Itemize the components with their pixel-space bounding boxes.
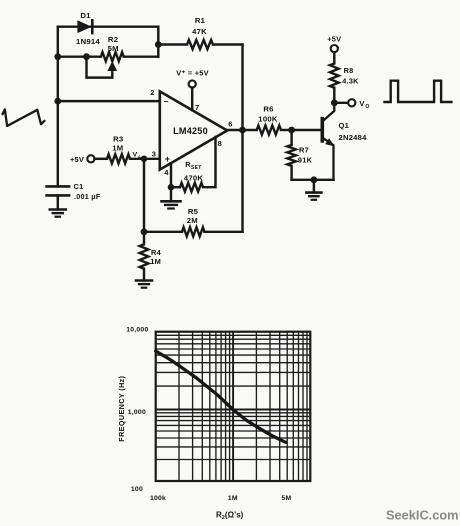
svg-text:.001 μF: .001 μF <box>74 192 101 201</box>
wire D1 top row <box>58 25 159 27</box>
svg-text:2N2484: 2N2484 <box>339 133 368 142</box>
svg-text:1M: 1M <box>150 257 161 266</box>
svg-text:R2: R2 <box>108 35 118 44</box>
svg-text:1M: 1M <box>112 143 123 152</box>
graph y tick label 10,000 <box>126 326 148 333</box>
power V+ = +5V pin 7 <box>176 68 209 110</box>
wire base <box>292 129 323 131</box>
resistor R3 1M <box>95 134 145 163</box>
svg-text:R6: R6 <box>263 105 273 114</box>
graph x tick label 100k <box>150 495 166 502</box>
node junction pin4/RSET <box>168 184 175 191</box>
svg-text:Q1: Q1 <box>339 121 350 130</box>
svg-text:D1: D1 <box>80 11 91 20</box>
graph grid major lines 1M and 1000 <box>156 332 311 481</box>
wire emitter bottom row <box>292 179 334 181</box>
node junction rail/pin2 row <box>54 98 61 105</box>
node junction base <box>288 127 295 134</box>
node junction pin3 <box>141 156 148 163</box>
svg-text:R8: R8 <box>344 66 354 75</box>
sawtooth waveform symbol <box>3 109 45 126</box>
graph curve frequency vs R2 <box>156 351 286 442</box>
wire op-amp output pin 6 <box>227 129 242 131</box>
svg-text:R4: R4 <box>151 248 162 257</box>
svg-text:100: 100 <box>131 486 143 493</box>
resistor R7 91K <box>287 130 312 180</box>
node V_A label <box>133 151 142 159</box>
ground under C1 <box>50 210 66 217</box>
node junction Vo <box>331 99 338 106</box>
svg-text:R5: R5 <box>188 207 199 216</box>
svg-text:+5V: +5V <box>70 155 84 164</box>
graph x tick label 5M <box>282 495 292 502</box>
resistor R4 1M <box>140 232 162 281</box>
power +5V left terminal <box>70 155 95 164</box>
svg-text:−: − <box>164 97 169 107</box>
resistor R5 2M <box>144 207 243 237</box>
svg-text:47K: 47K <box>192 27 207 36</box>
graph y axis label FREQUENCY (Hz) <box>117 375 126 441</box>
resistor R2 5M (potentiometer) <box>101 35 124 61</box>
svg-text:2M: 2M <box>187 216 198 225</box>
graph grid minor lines <box>156 332 311 481</box>
svg-text:100k: 100k <box>150 495 166 502</box>
wire V_A column down <box>143 159 145 232</box>
potentiometer R2 wiper arrow and wire <box>87 57 117 78</box>
graph x axis label R2(ohms) <box>216 511 244 522</box>
svg-text:1N914: 1N914 <box>76 37 100 46</box>
svg-text:R1: R1 <box>195 16 206 25</box>
resistor R1 47K <box>158 16 242 49</box>
resistor RSET 470K <box>171 137 216 192</box>
svg-text:O: O <box>365 104 369 110</box>
svg-text:V⁺ = +5V: V⁺ = +5V <box>176 68 209 77</box>
graph plot box <box>156 332 311 481</box>
diode D1 1N914 <box>76 11 100 46</box>
svg-text:6: 6 <box>228 120 232 129</box>
node junction ground row <box>311 176 318 183</box>
ground under RSET <box>162 187 181 208</box>
svg-text:SeekIC.com: SeekIC.com <box>386 508 459 523</box>
svg-text:SET: SET <box>191 165 201 171</box>
svg-text:1M: 1M <box>228 495 238 502</box>
transistor Q1 2N2484 <box>322 103 367 180</box>
op-amp U1 LM4250 <box>150 88 232 177</box>
node junction output/feedback <box>239 127 246 134</box>
power +5V top right terminal <box>327 35 341 53</box>
svg-text:4: 4 <box>164 168 169 177</box>
svg-text:R2(Ω’s): R2(Ω’s) <box>216 511 244 522</box>
node junction V_A/R5/R4 <box>141 228 148 235</box>
svg-text:+: + <box>165 154 171 164</box>
pin 4 wire <box>170 163 172 187</box>
svg-text:R3: R3 <box>113 134 123 143</box>
ground under Q1 emitter row <box>306 180 321 200</box>
capacitor C1 .001uF <box>47 182 101 210</box>
wire right column x158 <box>157 27 159 57</box>
graph y tick label 100 <box>131 486 143 493</box>
svg-text:LM4250: LM4250 <box>173 126 208 136</box>
svg-text:4.3K: 4.3K <box>342 77 359 86</box>
svg-text:5M: 5M <box>282 495 292 502</box>
svg-text:1,000: 1,000 <box>128 409 146 416</box>
svg-text:470K: 470K <box>184 173 204 182</box>
node junction R2/wiper <box>83 53 90 60</box>
wire left rail <box>57 27 59 187</box>
watermark SeekIC.com <box>386 508 459 523</box>
node junction D1-R2/R1 <box>155 41 162 48</box>
svg-text:2: 2 <box>150 88 154 97</box>
graph x tick label 1M <box>228 495 238 502</box>
resistor R8 4.3K <box>330 52 359 103</box>
svg-text:C1: C1 <box>74 182 84 191</box>
svg-text:5M: 5M <box>108 44 119 53</box>
wire pin2 row <box>58 100 160 102</box>
node junction rail/R2 row <box>54 53 61 60</box>
ground under R4 <box>136 281 152 288</box>
graph y tick label 1,000 <box>128 409 146 416</box>
svg-text:7: 7 <box>195 103 199 112</box>
svg-text:FREQUENCY (Hz): FREQUENCY (Hz) <box>117 375 126 441</box>
svg-text:R7: R7 <box>299 146 309 155</box>
svg-text:10,000: 10,000 <box>126 326 148 333</box>
svg-text:100K: 100K <box>258 114 278 123</box>
svg-text:91K: 91K <box>298 155 313 164</box>
pulse waveform symbol <box>383 81 452 102</box>
output Vo terminal <box>334 99 369 110</box>
resistor R6 100K <box>243 105 292 135</box>
svg-text:8: 8 <box>218 139 222 148</box>
svg-text:3: 3 <box>152 150 156 159</box>
wire feedback column x242 <box>241 45 243 232</box>
svg-text:+5V: +5V <box>327 35 341 44</box>
wire R2 row <box>58 55 159 57</box>
wire pin3 to op-amp <box>144 158 160 160</box>
